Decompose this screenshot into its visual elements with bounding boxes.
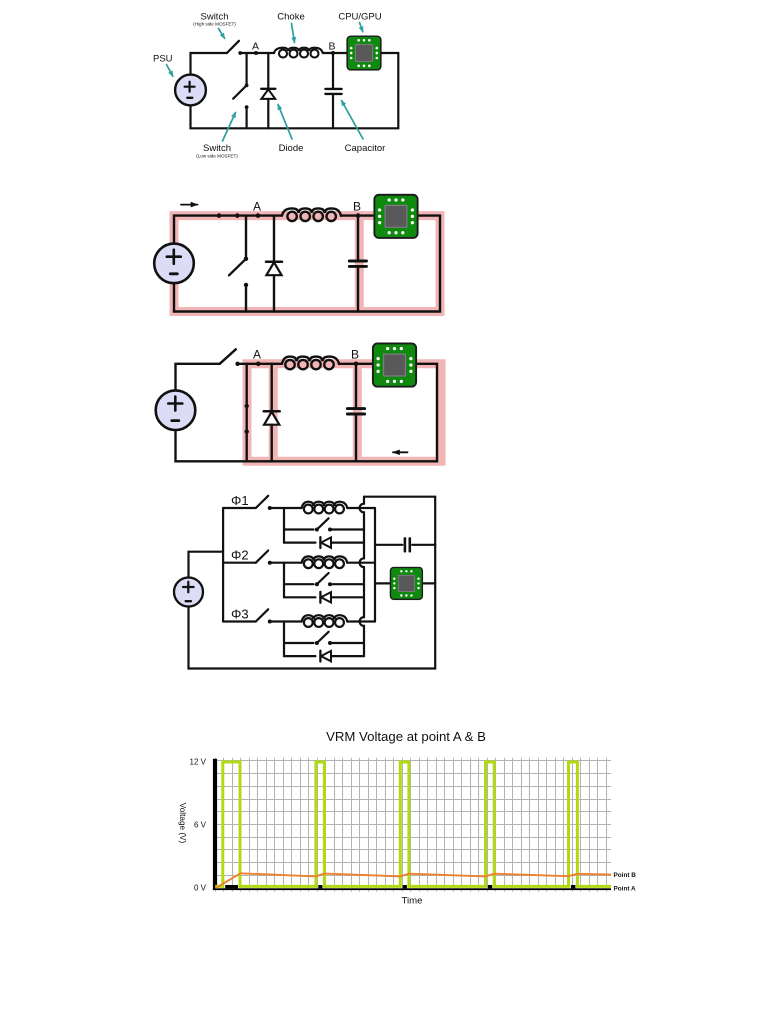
wire: switch S1b to ground bus — [330, 528, 364, 530]
wire: diode D2 to ground bus — [331, 596, 364, 598]
wire: node B to chip — [341, 214, 373, 216]
wire: chip to right rail and bottom rail back to PSU — [176, 364, 438, 462]
current direction arrow — [393, 451, 408, 453]
wire: inductor L1 output crossing to feed bus — [347, 507, 375, 509]
grid — [215, 758, 611, 892]
diode D1 — [266, 262, 282, 276]
inductor L3 choke — [302, 615, 348, 627]
wire: switch S1 to node A to choke — [240, 52, 274, 54]
svg-text:12 V: 12 V — [190, 757, 207, 766]
svg-text:VRM Voltage at point A & B: VRM Voltage at point A & B — [326, 729, 486, 744]
node A — [253, 348, 261, 366]
wire: switch S2b to ground bus — [330, 583, 364, 585]
wire: PSU top lead to switch S1 — [191, 53, 227, 75]
switch S1 phase 1 (open blade) — [223, 496, 272, 510]
wire: left parallel stub phase 3 — [283, 622, 285, 657]
wire: output feed bus — [374, 508, 376, 622]
wire: capacitor branch upper segment — [332, 53, 334, 88]
svg-text:0 V: 0 V — [194, 883, 207, 892]
wire: diode branch upper segment — [271, 364, 273, 411]
svg-text:Diode: Diode — [279, 143, 304, 154]
wire: low-side branch upper segment — [245, 216, 247, 259]
CPU chip U1 — [374, 195, 417, 238]
chart title — [326, 729, 486, 744]
label CPU/GPU — [338, 11, 381, 32]
wire: diode branch lower segment — [273, 275, 275, 311]
wire: diode D1 to ground bus — [331, 541, 364, 543]
CPU chip U1 — [373, 343, 416, 386]
switch S1 high side (open blade) — [220, 349, 240, 366]
capacitor C1 — [347, 409, 364, 414]
wire: switch S3 to inductor L3 — [270, 620, 302, 622]
wire: switch S1 to inductor L1 — [270, 507, 302, 509]
node B — [328, 41, 335, 56]
wire: phase input bus — [222, 508, 224, 622]
wire: capacitor feed — [375, 544, 402, 546]
x axis — [213, 888, 611, 890]
svg-text:Capacitor: Capacitor — [345, 143, 386, 154]
CPU chip U1 — [390, 567, 422, 599]
inductor L1 choke — [282, 357, 339, 370]
node B — [351, 348, 359, 366]
label Switch (low side MOSFET) — [196, 113, 238, 159]
capacitor C1 output — [405, 538, 410, 551]
wire: inductor L3 output crossing to feed bus — [347, 620, 375, 622]
wire: diode branch lower segment — [267, 99, 269, 128]
current direction arrow — [181, 204, 198, 206]
capacitor C1 — [349, 261, 366, 266]
svg-text:B: B — [353, 200, 361, 214]
wire: PSU top lead and top rail — [174, 216, 282, 244]
svg-text:(Low side MOSFET): (Low side MOSFET) — [196, 154, 238, 159]
diode D1 — [261, 89, 275, 99]
wire: diode branch upper segment — [273, 216, 275, 262]
wire: switch S2 to inductor L2 — [270, 562, 302, 564]
wire: left parallel stub phase 2 — [283, 563, 285, 598]
legend Point A — [614, 886, 637, 893]
switch S2 low side closed (straight with contact dots) — [245, 364, 249, 462]
PSU source V1 — [175, 75, 206, 106]
wire: capacitor branch upper segment — [355, 364, 357, 407]
svg-text:6 V: 6 V — [194, 820, 207, 829]
diode D2 — [284, 592, 331, 603]
wire: capacitor to right rail — [412, 544, 435, 546]
wire: diode branch lower segment — [271, 425, 273, 462]
y tick label 0 V — [194, 883, 207, 892]
svg-text:Φ2: Φ2 — [231, 548, 249, 563]
label Diode — [278, 105, 303, 155]
wire: left parallel stub phase 1 — [283, 508, 285, 543]
wire: CPU feed — [375, 582, 389, 584]
PSU source V1 — [174, 578, 203, 607]
wire: switch S1 to node A to choke — [238, 363, 282, 365]
label Choke — [277, 11, 304, 42]
label PSU — [153, 54, 173, 77]
inductor L1 choke — [302, 502, 348, 514]
phase label PHI3 — [231, 606, 249, 621]
wire: capacitor branch lower segment — [332, 95, 334, 128]
CPU chip U1 — [347, 36, 381, 70]
y tick label 6 V — [194, 820, 207, 829]
diode D1 — [284, 537, 331, 548]
wire: low-side branch lower segment — [245, 285, 247, 312]
phase label PHI1 — [231, 493, 249, 508]
wire: node B to chip — [323, 52, 346, 54]
wire: PSU top lead to phase bus — [189, 552, 224, 578]
wire: diode D3 to ground bus — [331, 655, 364, 657]
diode D3 — [284, 651, 331, 662]
wire: chip to right rail and bottom rail — [174, 216, 440, 312]
switch S2 phase 2 (open blade) — [223, 551, 272, 565]
wire: bottom rail from PSU to right rail and top wire — [189, 497, 436, 669]
phase label PHI2 — [231, 548, 249, 563]
svg-text:(High side MOSFET): (High side MOSFET) — [193, 22, 236, 27]
svg-text:Choke: Choke — [277, 11, 304, 22]
x axis title — [402, 896, 423, 907]
wire: chip to right rail, bottom rail back to PSU — [191, 53, 399, 128]
label Switch (high side MOSFET) — [193, 11, 236, 38]
switch S1 high side (open blade) — [227, 41, 242, 55]
svg-text:B: B — [328, 41, 335, 53]
capacitor C1 — [325, 89, 341, 94]
svg-text:B: B — [351, 348, 359, 362]
svg-text:Time: Time — [402, 896, 423, 907]
highlighted current path (discharge phase) — [247, 364, 441, 462]
inductor L1 choke — [274, 48, 323, 58]
wire: ground bus with crossover hops — [360, 497, 364, 656]
node A — [252, 41, 259, 56]
highlighted current path (charge phase) — [174, 216, 440, 312]
trace: Point A (green square wave) — [215, 762, 611, 886]
svg-text:A: A — [253, 200, 261, 214]
svg-text:CPU/GPU: CPU/GPU — [338, 11, 381, 22]
wire: node B to chip — [339, 363, 372, 365]
y tick label 12 V — [190, 757, 207, 766]
wire: low-side branch upper segment — [246, 53, 248, 85]
svg-text:Point A: Point A — [614, 886, 637, 893]
label Capacitor — [342, 101, 386, 155]
wire: low-side branch lower segment — [246, 107, 248, 128]
wire: diode branch upper segment — [267, 53, 269, 89]
svg-text:A: A — [252, 41, 259, 53]
PSU source V1 — [154, 244, 194, 284]
node A — [253, 200, 261, 218]
svg-text:PSU: PSU — [153, 54, 173, 65]
switch S2b low side (open blade) — [284, 573, 332, 586]
trace: switch-on marks (black) — [225, 885, 575, 888]
switch S1b low side (open blade) — [284, 518, 332, 531]
node B — [353, 200, 361, 218]
wire: inductor L2 output crossing to feed bus — [347, 562, 375, 564]
switch S1 closed (contact dots) — [217, 213, 240, 218]
diode D1 — [264, 411, 280, 425]
PSU source V1 — [156, 390, 196, 430]
inductor L2 choke — [302, 556, 348, 568]
legend Point B — [614, 872, 637, 879]
switch S3b low side (open blade) — [284, 632, 332, 645]
svg-text:A: A — [253, 348, 261, 362]
trace: Point B (orange) — [215, 873, 611, 888]
wire: switch S3b to ground bus — [330, 642, 364, 644]
svg-text:Φ3: Φ3 — [231, 606, 249, 621]
svg-text:Point B: Point B — [614, 872, 637, 879]
svg-text:Φ1: Φ1 — [231, 493, 249, 508]
y axis title — [178, 803, 187, 844]
wire: capacitor branch lower segment — [355, 415, 357, 461]
svg-text:Switch: Switch — [203, 143, 231, 154]
wire: capacitor branch lower segment — [357, 268, 359, 312]
switch S3 phase 3 (open blade) — [223, 609, 272, 623]
wire: CPU to right rail — [423, 582, 435, 584]
switch S2 low side (open blade) — [233, 84, 248, 110]
wire: PSU top lead to switch S1 — [176, 364, 220, 391]
svg-text:Voltage (V): Voltage (V) — [178, 803, 187, 844]
inductor L1 choke — [282, 208, 341, 221]
wire: capacitor branch upper segment — [357, 216, 359, 260]
y axis (thick) — [213, 759, 217, 890]
switch S2 low side (open blade) — [229, 257, 248, 288]
